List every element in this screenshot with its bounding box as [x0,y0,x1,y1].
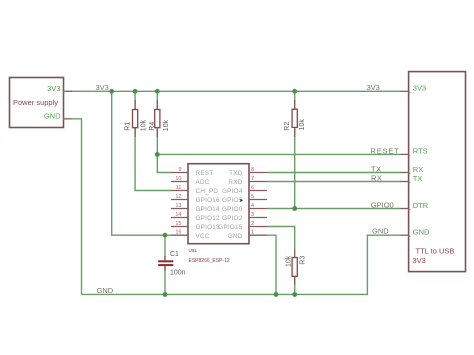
svg-text:GPIO0: GPIO0 [371,200,394,209]
svg-text:ESP8266_ESP-12: ESP8266_ESP-12 [189,258,230,264]
pin 7 RXD [228,176,267,186]
power supply pin stub 3V3 [64,90,73,92]
svg-text:3V3: 3V3 [413,84,426,93]
TTL to USB box [409,72,466,272]
svg-text:TTL to USB: TTL to USB [416,247,455,256]
TTL pin stub RX [401,172,409,174]
pin 10 ADC [171,176,210,186]
wire 3V3 to VCC vertical drop [112,91,171,235]
wire R4 top lead [156,91,158,110]
svg-text:GPIO14: GPIO14 [196,206,221,213]
svg-text:4: 4 [251,203,254,209]
node GND/IC junction [274,292,279,297]
svg-text:12: 12 [175,194,181,200]
wire GPIO0 net [267,208,401,210]
node VCC/C1 junction [163,233,168,238]
svg-text:10k: 10k [163,119,170,131]
power supply pin stub GND [64,118,72,120]
capacitor C1 [158,251,185,277]
node GND/R3 junction [292,292,297,297]
mouse cursor [240,199,243,202]
svg-text:RXD: RXD [228,179,242,186]
node 3V3/R1 junction [133,89,138,94]
node GND/C1 junction [163,292,168,297]
svg-text:3V3: 3V3 [47,84,60,93]
svg-text:RESET: RESET [371,146,400,155]
svg-text:100n: 100n [170,270,186,277]
wire R2 bottom to GPIO0 [294,128,296,209]
svg-text:GPIO16: GPIO16 [196,197,221,204]
wire R3 bottom lead [294,277,296,295]
node RESET junction [155,152,160,157]
node 3V3/VCC junction [109,89,114,94]
TTL pin stub TX [401,181,409,183]
svg-text:3: 3 [251,212,254,218]
TTL pin stub RTS [401,153,409,155]
svg-text:C1: C1 [170,251,179,258]
svg-text:GPIO5: GPIO5 [222,197,243,204]
svg-text:GND: GND [413,228,430,237]
wire C1 top lead [164,235,166,260]
svg-text:8: 8 [251,167,254,173]
TTL pin stub GND [401,234,409,236]
pin 2 GPIO15 [218,221,267,231]
svg-text:10k: 10k [141,119,148,131]
svg-text:R1: R1 [124,122,131,131]
pin 15 GPIO13 [171,221,220,231]
svg-text:U$1: U$1 [189,248,198,253]
svg-text:R3: R3 [299,256,306,265]
power supply SUPPLY1 box [10,78,64,128]
svg-text:1: 1 [251,230,254,236]
svg-text:GPIO4: GPIO4 [222,188,243,195]
wire R4 bottom to RESET junction and REST pin [157,128,171,173]
resistor R4 [149,100,170,137]
svg-text:VCC: VCC [196,233,210,240]
svg-text:TX: TX [371,164,382,173]
svg-text:3V3: 3V3 [96,83,109,92]
svg-text:TXD: TXD [229,170,243,177]
wire TX net [267,172,401,174]
svg-text:GPIO2: GPIO2 [222,215,243,222]
svg-text:11: 11 [176,185,182,191]
svg-text:TX: TX [413,174,423,183]
svg-text:R4: R4 [149,122,156,131]
svg-text:ADC: ADC [196,179,210,186]
pin 16 VCC [171,230,210,240]
svg-text:3V3: 3V3 [413,256,426,265]
svg-text:7: 7 [251,176,254,182]
svg-text:6: 6 [251,185,254,191]
svg-text:GND: GND [228,233,243,240]
wire R1 top lead [134,91,136,110]
resistor R2 [284,100,306,137]
pin 1 GND [228,230,267,240]
svg-text:Power supply: Power supply [13,98,58,107]
svg-text:REST: REST [196,170,214,177]
wire GPIO15 to R3 [267,227,295,250]
wire C1 bottom lead [164,266,166,294]
svg-text:RX: RX [413,165,423,174]
svg-text:CH_PD: CH_PD [196,188,219,195]
svg-text:9: 9 [178,167,181,173]
svg-text:14: 14 [175,212,181,218]
node 3V3/R4 junction [155,89,160,94]
svg-text:13: 13 [175,203,181,209]
svg-text:DTR: DTR [413,201,429,210]
wire RX net [267,181,401,183]
pin 6 GPIO4 [222,185,267,195]
svg-text:GPIO12: GPIO12 [196,215,221,222]
svg-text:10k: 10k [299,119,306,131]
resistor R1 [124,100,147,137]
node GPIO0/R2 junction [292,206,297,211]
svg-text:3V3: 3V3 [367,83,380,92]
svg-text:GND: GND [44,111,61,120]
TTL pin stub DTR [401,208,409,210]
TTL pin stub 3V3 [401,90,409,92]
wire R2 top lead [294,91,296,110]
svg-text:R2: R2 [284,122,291,131]
svg-text:RX: RX [371,173,382,182]
op-amp U$1 ESP8266 box [188,164,249,244]
resistor R3 [285,249,306,285]
svg-text:RTS: RTS [413,147,428,156]
svg-text:GND: GND [372,227,389,236]
svg-text:5: 5 [251,194,254,200]
svg-text:16: 16 [175,230,181,236]
pin 11 CH_PD [171,185,218,195]
pin 4 GPIO0 [222,203,267,213]
svg-text:10: 10 [175,176,181,182]
pin 12 GPIO16 [171,194,220,204]
node 3V3/R2 junction [292,89,297,94]
pin 5 GPIO5 [222,194,267,204]
svg-text:15: 15 [175,221,181,227]
wire power supply GND down [71,119,82,295]
svg-text:10k: 10k [285,255,292,267]
pin 8 TXD [229,167,267,177]
pin 13 GPIO14 [171,203,220,213]
wire IC GND pin to rail [267,235,276,294]
svg-text:GND: GND [97,286,114,295]
pin 14 GPIO12 [171,212,220,222]
svg-text:GPIO13: GPIO13 [196,224,221,231]
pin 3 GPIO2 [222,212,267,222]
pin 9 REST [171,167,213,177]
wire GND rail [82,235,402,294]
wire 3V3 rail [71,90,401,92]
svg-text:GPIO15: GPIO15 [218,224,243,231]
svg-text:2: 2 [251,221,254,227]
wire RESET net [157,153,401,155]
svg-text:GPIO0: GPIO0 [222,206,243,213]
wire R1 bottom to CH_PD [135,128,171,191]
